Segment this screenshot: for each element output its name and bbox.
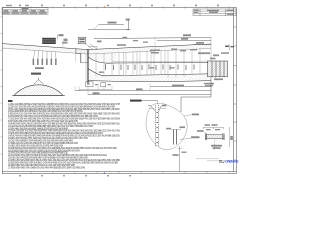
- station dimension texts: [99, 64, 195, 73]
- small pipe detail dashed axis: [213, 140, 215, 151]
- long dimension line over gate area: [94, 34, 211, 61]
- intake face wall: [76, 48, 88, 84]
- upper duct wall: [112, 61, 208, 63]
- station dimension lines across duct: [96, 49, 200, 78]
- gate grid block: [208, 61, 228, 77]
- small pipe detail leader left: [197, 130, 207, 134]
- notes header: [8, 100, 13, 102]
- lower duct wall (bell lip): [88, 69, 208, 76]
- dome cross-section: [12, 85, 65, 96]
- detail dim top: [149, 105, 167, 109]
- elevation labels cluster: [58, 34, 68, 43]
- detail right bar pair: [174, 130, 177, 145]
- boxed label above face: [78, 37, 97, 49]
- bottom hatch band: [88, 69, 211, 82]
- frame border: [2, 8, 237, 174]
- revision table top-right: [193, 9, 236, 16]
- small pipe detail top dim line: [203, 127, 223, 129]
- frame zone ticks right: [233, 27, 237, 160]
- notes block: [8, 103, 121, 169]
- small pipe detail label: [211, 145, 222, 149]
- detail funnel top: [148, 106, 162, 112]
- detail leader right: [180, 114, 200, 140]
- ground hatch band left: [2, 44, 88, 54]
- layer callout labels: [33, 59, 57, 70]
- ground hatch band right: [88, 44, 211, 54]
- frame zone numbers top: [19, 5, 219, 7]
- signature lines: [196, 159, 219, 161]
- dome apex symbol: [34, 78, 45, 85]
- upper dimension line 2: [88, 30, 128, 43]
- bottom dimension line C (total): [88, 92, 211, 94]
- right small vertical dim: [229, 127, 232, 147]
- small pipe detail top texts: [205, 124, 221, 130]
- detail bottom tick: [178, 148, 183, 150]
- frame zone numbers bottom: [19, 175, 131, 176]
- water level symbol: [126, 18, 131, 30]
- gate leader labels below: [204, 77, 223, 86]
- bottom dimension chain line: [79, 89, 112, 91]
- detail shaft dashed pair: [156, 105, 159, 147]
- svg-text:CWENKVS: CWENKVS: [225, 160, 239, 164]
- drain line below circle: [173, 146, 187, 172]
- bottom dimension line A: [150, 85, 211, 87]
- materials table text: [3, 8, 47, 14]
- frame zone ticks left: [1, 17, 2, 154]
- blue stamp: [225, 160, 239, 164]
- materials table top-left: [2, 8, 48, 15]
- layer callout fan: [34, 50, 57, 58]
- sheet label text above frame: [6, 5, 29, 6]
- dimension extension verticals: [75, 81, 211, 96]
- excavation line left of face: [63, 41, 76, 62]
- detail dim mid: [166, 126, 185, 129]
- centering mark top: [104, 6, 105, 7]
- svg-text:ITU: ITU: [219, 159, 225, 164]
- detail callout leader: [130, 100, 158, 105]
- dark label box on band: [42, 38, 56, 44]
- stamp prefix: [219, 159, 225, 164]
- small pipe detail hatched bar: [205, 134, 224, 140]
- svg-text:27.BN5 HBW M8G 6XH 2MB K59 UA2: 27.BN5 HBW M8G 6XH 2MB K59 UA2 M4S 494 5…: [8, 166, 85, 169]
- frame zone ticks top: [31, 6, 229, 8]
- parapet top of face: [88, 47, 97, 50]
- bell collar hatch upper: [88, 53, 116, 64]
- right edge vertical dim: [225, 44, 234, 51]
- scattered small dim texts upper middle: [117, 37, 148, 46]
- footing box left: [86, 82, 93, 87]
- dome label: [31, 73, 41, 75]
- detail blob boundary: [146, 103, 187, 149]
- right wall outline below gate: [181, 77, 211, 112]
- frame zone ticks bottom: [31, 172, 229, 174]
- revision table text: [194, 10, 234, 15]
- centering mark bottom: [104, 172, 105, 173]
- gate area small texts: [150, 49, 229, 60]
- upper dimension line 1: [93, 22, 124, 30]
- footing box right: [95, 83, 111, 87]
- detail shaft speckle: [157, 112, 158, 143]
- bottom dimension line B: [75, 88, 211, 90]
